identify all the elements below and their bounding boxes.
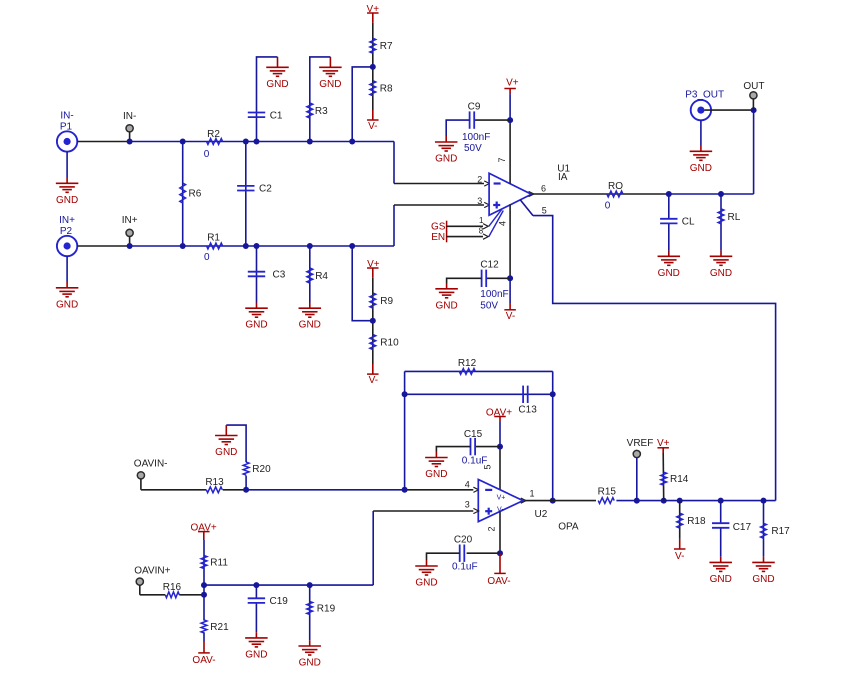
svg-text:EN: EN — [431, 232, 445, 243]
svg-text:IN-: IN- — [60, 111, 73, 122]
svg-text:OAV-: OAV- — [487, 576, 510, 587]
svg-text:GND: GND — [710, 574, 732, 585]
svg-text:RO: RO — [608, 181, 623, 192]
svg-text:GND: GND — [415, 578, 437, 589]
svg-text:R16: R16 — [163, 582, 182, 593]
svg-text:GND: GND — [299, 658, 321, 669]
svg-text:C9: C9 — [468, 102, 481, 113]
svg-text:0: 0 — [204, 252, 210, 263]
svg-text:8: 8 — [479, 227, 484, 236]
svg-text:6: 6 — [541, 184, 546, 194]
svg-text:IN-: IN- — [123, 111, 136, 122]
svg-text:OAVIN-: OAVIN- — [134, 459, 168, 470]
svg-text:7: 7 — [497, 157, 507, 162]
svg-text:R12: R12 — [458, 358, 477, 369]
svg-text:GND: GND — [215, 447, 237, 458]
svg-text:R13: R13 — [205, 477, 224, 488]
svg-text:GND: GND — [435, 300, 457, 311]
svg-text:OAV-: OAV- — [192, 655, 215, 666]
svg-text:R10: R10 — [380, 338, 399, 349]
svg-text:VREF: VREF — [627, 438, 654, 449]
svg-text:R7: R7 — [380, 41, 393, 52]
svg-text:R2: R2 — [207, 129, 220, 140]
svg-text:GND: GND — [710, 268, 732, 279]
svg-text:4: 4 — [498, 221, 508, 226]
svg-text:C12: C12 — [480, 260, 499, 271]
svg-text:4: 4 — [465, 479, 470, 489]
svg-text:C13: C13 — [518, 404, 537, 415]
svg-text:0: 0 — [605, 200, 611, 211]
svg-text:R8: R8 — [380, 84, 393, 95]
svg-text:U2: U2 — [535, 509, 548, 520]
svg-text:0: 0 — [204, 149, 210, 160]
svg-text:RL: RL — [728, 212, 741, 223]
svg-text:R6: R6 — [189, 189, 202, 200]
svg-text:GND: GND — [266, 79, 288, 90]
svg-text:IN+: IN+ — [122, 215, 138, 226]
svg-text:P2: P2 — [60, 226, 73, 237]
svg-text:3: 3 — [477, 196, 482, 206]
svg-text:2: 2 — [486, 526, 496, 531]
svg-text:3: 3 — [465, 499, 470, 509]
svg-text:GND: GND — [752, 574, 774, 585]
svg-text:R1: R1 — [207, 233, 220, 244]
svg-text:CL: CL — [682, 217, 695, 228]
svg-text:GND: GND — [56, 195, 78, 206]
svg-text:IN+: IN+ — [59, 215, 75, 226]
svg-text:V-: V- — [369, 375, 378, 386]
svg-text:R17: R17 — [771, 526, 790, 537]
svg-text:P1: P1 — [60, 122, 73, 133]
svg-text:IA: IA — [558, 172, 568, 183]
svg-text:OUT: OUT — [743, 81, 764, 92]
svg-text:GND: GND — [425, 469, 447, 480]
svg-text:R3: R3 — [315, 106, 328, 117]
svg-text:R21: R21 — [210, 622, 229, 633]
svg-text:C2: C2 — [259, 184, 272, 195]
svg-text:100nF: 100nF — [480, 289, 508, 300]
svg-text:GND: GND — [299, 320, 321, 331]
svg-text:GND: GND — [435, 154, 457, 165]
svg-text:R15: R15 — [598, 487, 617, 498]
svg-text:P3_OUT: P3_OUT — [685, 90, 724, 101]
svg-text:C17: C17 — [733, 522, 752, 533]
svg-text:C20: C20 — [454, 535, 473, 546]
svg-text:R18: R18 — [687, 516, 706, 527]
svg-text:GND: GND — [690, 163, 712, 174]
svg-text:OAVIN+: OAVIN+ — [134, 566, 170, 577]
svg-text:GND: GND — [658, 268, 680, 279]
svg-text:C19: C19 — [270, 596, 289, 607]
svg-text:R9: R9 — [380, 296, 393, 307]
svg-text:V-: V- — [506, 311, 515, 322]
svg-text:0.1uF: 0.1uF — [452, 561, 478, 572]
svg-text:1: 1 — [529, 489, 534, 499]
svg-text:OPA: OPA — [558, 522, 579, 533]
svg-text:R14: R14 — [670, 474, 689, 485]
svg-text:C3: C3 — [273, 270, 286, 281]
svg-text:V+: V+ — [506, 78, 519, 89]
svg-text:GND: GND — [319, 79, 341, 90]
svg-text:R11: R11 — [210, 558, 228, 569]
svg-text:GND: GND — [56, 299, 78, 310]
svg-text:C15: C15 — [464, 429, 483, 440]
svg-text:5: 5 — [542, 205, 547, 215]
svg-text:50V: 50V — [464, 143, 482, 154]
svg-text:GND: GND — [245, 320, 267, 331]
svg-text:V+: V+ — [497, 495, 506, 502]
svg-text:R4: R4 — [315, 271, 328, 282]
svg-text:2: 2 — [477, 175, 482, 185]
svg-text:5: 5 — [483, 464, 493, 469]
svg-text:V-: V- — [675, 551, 684, 562]
svg-text:V-: V- — [368, 121, 377, 132]
svg-text:50V: 50V — [480, 301, 498, 312]
svg-text:1: 1 — [479, 216, 484, 225]
svg-text:C1: C1 — [270, 110, 283, 121]
svg-text:GND: GND — [245, 649, 267, 660]
svg-text:R19: R19 — [317, 603, 336, 614]
svg-text:100nF: 100nF — [462, 132, 490, 143]
svg-text:R20: R20 — [252, 464, 271, 475]
